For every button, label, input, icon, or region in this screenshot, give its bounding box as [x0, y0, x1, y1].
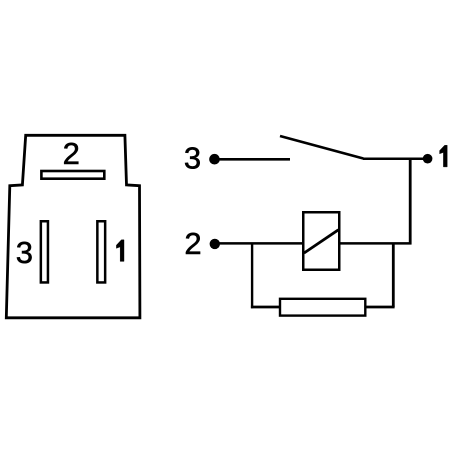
svg-text:3: 3 [184, 140, 201, 175]
svg-text:2: 2 [184, 226, 201, 261]
svg-text:2: 2 [63, 136, 80, 171]
svg-text:3: 3 [16, 235, 33, 270]
